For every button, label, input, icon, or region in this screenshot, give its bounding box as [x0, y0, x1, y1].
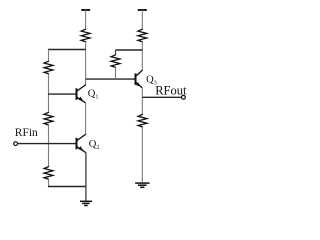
- supply rail bar VCC1 (left): [81, 9, 90, 11]
- transistor Q1: [77, 85, 86, 103]
- resistor R4: [138, 114, 147, 127]
- supply rail bar VCC2 (right): [138, 9, 147, 11]
- wire R3 bottom lead: [115, 67, 117, 79]
- wire RFout: [142, 96, 181, 98]
- resistor R2: [138, 29, 147, 42]
- wire left column bottom lead: [48, 179, 50, 186]
- wire Q1 base lead: [48, 93, 76, 95]
- resistor R1: [81, 29, 90, 42]
- resistor R3: [111, 55, 120, 68]
- wire Q2 emitter to ground: [85, 152, 87, 200]
- resistor Rc: [44, 167, 53, 180]
- wire RFin to Q2 base: [18, 143, 76, 145]
- resistor Ra: [44, 61, 53, 74]
- wire bottom horizontal to ground: [48, 186, 86, 188]
- ground left: [80, 201, 92, 205]
- wire left column segment 2: [48, 74, 50, 113]
- transistor Q2: [77, 134, 86, 152]
- svg-text:RFin: RFin: [15, 127, 38, 139]
- wire left column segment 3: [48, 125, 50, 167]
- ground right: [135, 183, 149, 187]
- svg-text:Q1: Q1: [88, 89, 99, 101]
- wire rail1 lead: [85, 10, 87, 29]
- transistor Q3: [136, 70, 143, 88]
- wire Q1 emitter to Q2 collector: [85, 103, 87, 135]
- node RFin terminal: [14, 142, 18, 146]
- wire Q1 collector node to Q3 base: [86, 78, 135, 80]
- wire feedback top horizontal: [116, 49, 143, 51]
- wire R2 to Q3 collector: [141, 42, 143, 70]
- wire left column top segment: [48, 50, 50, 62]
- wire node A horizontal (left bias top): [48, 49, 86, 51]
- wire rail2 lead: [141, 10, 143, 29]
- resistor Rb: [44, 112, 53, 125]
- wire R4 to ground: [141, 127, 143, 182]
- svg-text:Q2: Q2: [89, 139, 100, 151]
- node RFout terminal: [182, 95, 186, 99]
- wire main column R1 to Q1 collector: [85, 42, 87, 85]
- wire R3 top lead: [115, 50, 117, 55]
- wire Q3 emitter to R4: [141, 88, 143, 115]
